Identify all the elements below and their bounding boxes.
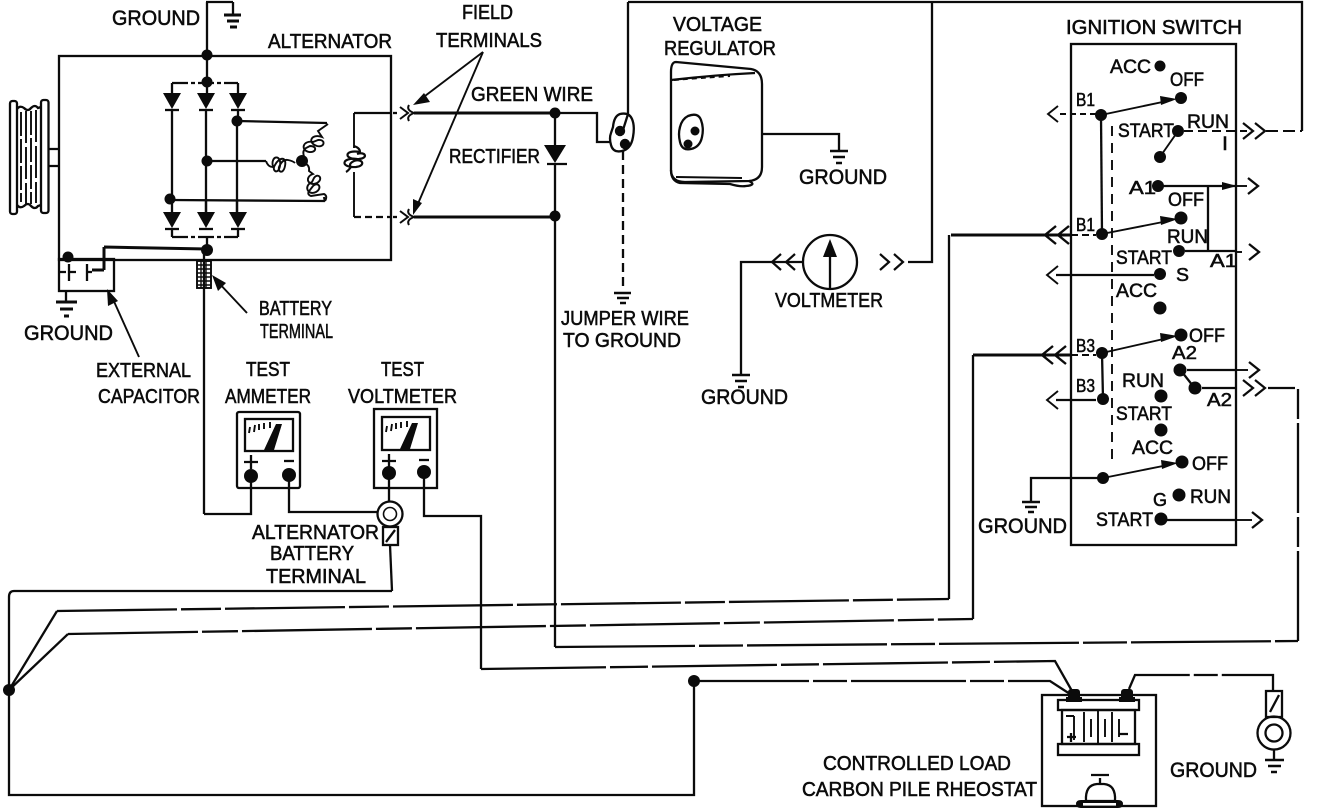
node: rectifier junction [550, 211, 561, 222]
ground (regulator) [830, 151, 848, 163]
svg-text:OFF: OFF [1170, 69, 1204, 91]
wire stator bottom branch [170, 197, 325, 201]
svg-text:START: START [1118, 120, 1174, 142]
wire bottom junction to battery [694, 681, 1070, 694]
terminal B3 second [1097, 393, 1109, 405]
wire B3 feed long (dash-dot) [68, 619, 973, 634]
battery post left [1066, 689, 1082, 702]
diode D3 [229, 93, 247, 110]
svg-text:GROUND: GROUND [978, 514, 1067, 538]
wire top feed across [628, 2, 1302, 131]
wire B3 input feed [973, 354, 1071, 357]
contact RUN 4 [1173, 489, 1186, 502]
rotor field winding [344, 113, 364, 217]
arrows (voltmeter right chevrons) [880, 254, 903, 270]
wire voltmeter minus long [424, 472, 481, 669]
wire I output (dash) [1184, 130, 1247, 132]
svg-text:TERMINALS: TERMINALS [436, 30, 542, 52]
svg-text:GROUND: GROUND [1170, 758, 1257, 782]
switch arm G-OFF4 [1103, 460, 1178, 478]
wire center column [206, 55, 208, 93]
svg-text:GREEN WIRE: GREEN WIRE [471, 84, 593, 106]
svg-text:GROUND: GROUND [24, 321, 113, 345]
contact RUN 2 [1173, 245, 1185, 257]
switch arm B1b-OFF2 [1102, 216, 1178, 234]
wire diode columns mid [171, 110, 173, 199]
contact START 3 [1155, 424, 1168, 437]
svg-text:IGNITION SWITCH: IGNITION SWITCH [1066, 17, 1242, 39]
svg-text:RUN: RUN [1122, 370, 1164, 392]
contact START 4 / output [1155, 513, 1168, 526]
test ammeter [237, 412, 300, 488]
ignition switch box [1071, 44, 1236, 545]
svg-text:REGULATOR: REGULATOR [664, 38, 776, 60]
wire B3 feed vertical [972, 355, 974, 619]
contact A2 lower [1189, 382, 1202, 395]
pulley [10, 100, 59, 214]
wire green wire to connector [555, 113, 611, 142]
svg-text:CAPACITOR: CAPACITOR [98, 386, 200, 408]
label arrow field terminal 2 [413, 52, 483, 215]
svg-text:BATTERY: BATTERY [270, 543, 354, 565]
diode bus top (dash-dot) [172, 83, 238, 93]
contact OFF 4 [1176, 456, 1189, 469]
svg-text:AMMETER: AMMETER [225, 386, 311, 408]
node: case bottom joint [63, 252, 74, 263]
contact OFF 3 [1175, 329, 1188, 342]
switch arm A2 [1182, 372, 1193, 386]
ground (capacitor) [56, 302, 77, 316]
svg-text:ACC: ACC [1132, 437, 1173, 459]
svg-text:VOLTMETER: VOLTMETER [775, 290, 883, 312]
ground (bolt) [1265, 760, 1284, 772]
wire green wire [414, 112, 553, 115]
wire ammeter plus [204, 476, 251, 514]
svg-text:A2: A2 [1207, 389, 1232, 410]
terminal B1 [1095, 109, 1107, 121]
wire left loop [9, 591, 694, 795]
arrow B1 input [1048, 106, 1098, 122]
voltage regulator body [671, 62, 762, 186]
rectifier diode [544, 113, 567, 212]
contact OFF 1 [1175, 92, 1187, 104]
svg-text:ALTERNATOR: ALTERNATOR [268, 31, 392, 53]
switch arm B3-OFF3 [1102, 333, 1178, 353]
node: output junction [201, 244, 213, 256]
terminal B1 second [1096, 228, 1108, 240]
diode D1 [163, 93, 181, 110]
contact ACC 2 [1154, 302, 1167, 315]
contact START 1 [1154, 151, 1166, 163]
external capacitor box [59, 259, 114, 291]
wire connector up to top feed [627, 2, 629, 115]
svg-text:VOLTMETER: VOLTMETER [348, 386, 457, 408]
battery [1058, 700, 1139, 755]
carbon pile rheostat [1076, 775, 1123, 808]
svg-text:BATTERY: BATTERY [259, 298, 332, 320]
svg-text:RUN: RUN [1187, 111, 1229, 133]
ground (jumper) [614, 293, 631, 303]
ground bolt [1258, 691, 1291, 759]
svg-text:TEST: TEST [381, 359, 424, 381]
field terminal 2 connector [393, 209, 414, 225]
svg-text:TEST: TEST [246, 359, 290, 381]
label arrow field terminal 1 [413, 52, 483, 105]
node: center tap [202, 156, 213, 167]
svg-text:I: I [1222, 133, 1228, 155]
wire START output [1167, 519, 1236, 521]
wire A2 output 1 [1187, 369, 1236, 371]
wire B1 feed long (dash-dot) [57, 599, 949, 611]
wire field to terminal 2 (dashed) [354, 216, 391, 218]
svg-text:A2: A2 [1172, 342, 1197, 363]
arrows (A2 out chevrons) [1243, 380, 1265, 396]
svg-text:ALTERNATOR: ALTERNATOR [252, 522, 379, 544]
svg-text:VOLTAGE: VOLTAGE [673, 14, 762, 36]
wire B1 feed diagonal [9, 611, 57, 690]
connector plug (oval, two pins) [610, 114, 634, 152]
battery terminal (hatched) [197, 261, 211, 288]
battery post right [1119, 689, 1135, 702]
svg-text:G: G [1153, 489, 1167, 510]
arrows (B3 feed chevrons) [1042, 346, 1066, 364]
terminal S [1154, 268, 1166, 280]
contact A2 [1174, 364, 1187, 377]
wire regulator to ground [762, 134, 839, 150]
node: stator bottom tap [165, 194, 176, 205]
svg-text:OFF: OFF [1168, 189, 1204, 211]
arrow (A1 chevron) [1237, 185, 1247, 187]
ground (alternator case) [224, 15, 241, 27]
diode D6 [229, 201, 247, 229]
wire ammeter minus to ring [289, 475, 378, 512]
alternator case [59, 56, 391, 260]
svg-text:TERMINAL: TERMINAL [260, 321, 333, 343]
svg-text:CARBON PILE RHEOSTAT: CARBON PILE RHEOSTAT [802, 779, 1037, 801]
switch arm B1-OFF [1101, 96, 1177, 115]
svg-text:ACC: ACC [1110, 56, 1151, 78]
node: stator top tap [232, 116, 243, 127]
ground (ignition switch) [1022, 502, 1040, 512]
svg-text:RUN: RUN [1190, 486, 1231, 508]
wire terminal 2 to node [414, 216, 553, 219]
contact ACC 1 [1155, 61, 1166, 72]
svg-text:GROUND: GROUND [701, 385, 788, 409]
svg-text:TO GROUND: TO GROUND [563, 330, 681, 352]
svg-text:JUMPER WIRE: JUMPER WIRE [561, 308, 689, 330]
test voltmeter [374, 409, 437, 488]
wire field to terminal 1 [354, 112, 391, 114]
wire B1 link [1101, 115, 1102, 234]
diode D5 [197, 201, 215, 229]
contact RUN 3 [1155, 390, 1168, 403]
wire voltmeter feed from top [908, 2, 932, 262]
wire battery terminal down [203, 250, 205, 514]
wire A1 output [1158, 185, 1236, 187]
arrow (A1 out chevron) [1249, 244, 1259, 260]
jumper wire (dashed) [622, 151, 624, 290]
terminal B3 [1096, 347, 1108, 359]
wire A2 output 2 [1202, 387, 1236, 389]
node: stator neutral [296, 155, 308, 167]
contact RUN 1 / I output [1172, 125, 1184, 137]
wire capacitor ground [65, 291, 67, 301]
terminal G arm pivot [1097, 472, 1109, 484]
wire ring down to left loop [390, 545, 392, 591]
wire stator top branch [237, 121, 327, 123]
diode D4 [163, 199, 181, 229]
arrows (voltmeter left chevrons) [772, 254, 795, 270]
node: green wire junction [550, 108, 561, 119]
svg-text:B1: B1 [1076, 214, 1095, 235]
svg-text:A1: A1 [1210, 250, 1237, 271]
wire S output left [1047, 266, 1154, 284]
regulator connector pad [679, 115, 703, 150]
svg-text:ACC: ACC [1116, 280, 1157, 302]
wire RUN2/A1 output [1185, 250, 1236, 252]
svg-text:RECTIFIER: RECTIFIER [449, 146, 540, 168]
wire voltmeter left to ground [741, 262, 803, 374]
controlled load frame [1042, 695, 1156, 806]
wire voltmeter plus down to ring [388, 473, 390, 502]
wire B3 link [1102, 353, 1103, 399]
bracket OFF 2 [1207, 186, 1209, 251]
label arrow battery terminal [212, 275, 247, 313]
svg-text:START: START [1116, 247, 1172, 269]
diode bus bottom (dash-dot) [172, 229, 238, 237]
node: bottom junction [688, 675, 700, 687]
contact OFF 2 [1175, 212, 1188, 225]
arrows (I output chevrons) [1243, 123, 1265, 139]
svg-text:GROUND: GROUND [112, 6, 200, 30]
wire output to capacitor [92, 247, 207, 270]
diode D2 [197, 93, 215, 110]
wire B1 input feed [951, 234, 1071, 237]
switch position link (dashed) [1111, 126, 1113, 466]
node: top bus junction [202, 50, 213, 61]
field terminal 1 connector [393, 105, 414, 121]
arrows (B1 feed chevrons) [1045, 226, 1069, 244]
alternator case ground wire [206, 2, 233, 55]
wire B3b input arrow [1047, 391, 1096, 409]
svg-text:CONTROLLED LOAD: CONTROLLED LOAD [823, 753, 1011, 775]
alternator battery terminal (ring probe) [378, 502, 403, 546]
svg-text:FIELD: FIELD [462, 2, 513, 24]
svg-text:RUN: RUN [1167, 226, 1208, 248]
voltmeter (round) [803, 235, 857, 289]
svg-text:B1: B1 [1076, 89, 1095, 110]
wire B3 feed diagonal [9, 634, 68, 690]
ground (voltmeter) [732, 375, 750, 387]
wire battery right to ground bolt [1129, 675, 1273, 691]
wire center tap to coil [207, 160, 266, 162]
svg-text:GROUND: GROUND [799, 165, 887, 189]
wire B1 feed vertical [948, 235, 950, 599]
svg-text:EXTERNAL: EXTERNAL [96, 360, 191, 382]
svg-text:TERMINAL: TERMINAL [266, 566, 366, 588]
svg-text:S: S [1176, 264, 1189, 285]
node: left loop corner [3, 684, 15, 696]
svg-text:START: START [1116, 403, 1172, 425]
terminal A1 [1152, 180, 1164, 192]
svg-text:B3: B3 [1076, 335, 1095, 356]
svg-text:OFF: OFF [1192, 453, 1228, 475]
wire ground pigtail [1031, 478, 1103, 501]
stator winding (Y) [266, 124, 328, 201]
svg-text:A1: A1 [1129, 177, 1156, 198]
svg-text:START: START [1096, 509, 1153, 531]
wire load loop bottom [555, 641, 1298, 647]
svg-text:B3: B3 [1076, 375, 1095, 396]
label arrow external capacitor [107, 289, 139, 357]
wire rectifier down to load loop [554, 216, 556, 647]
